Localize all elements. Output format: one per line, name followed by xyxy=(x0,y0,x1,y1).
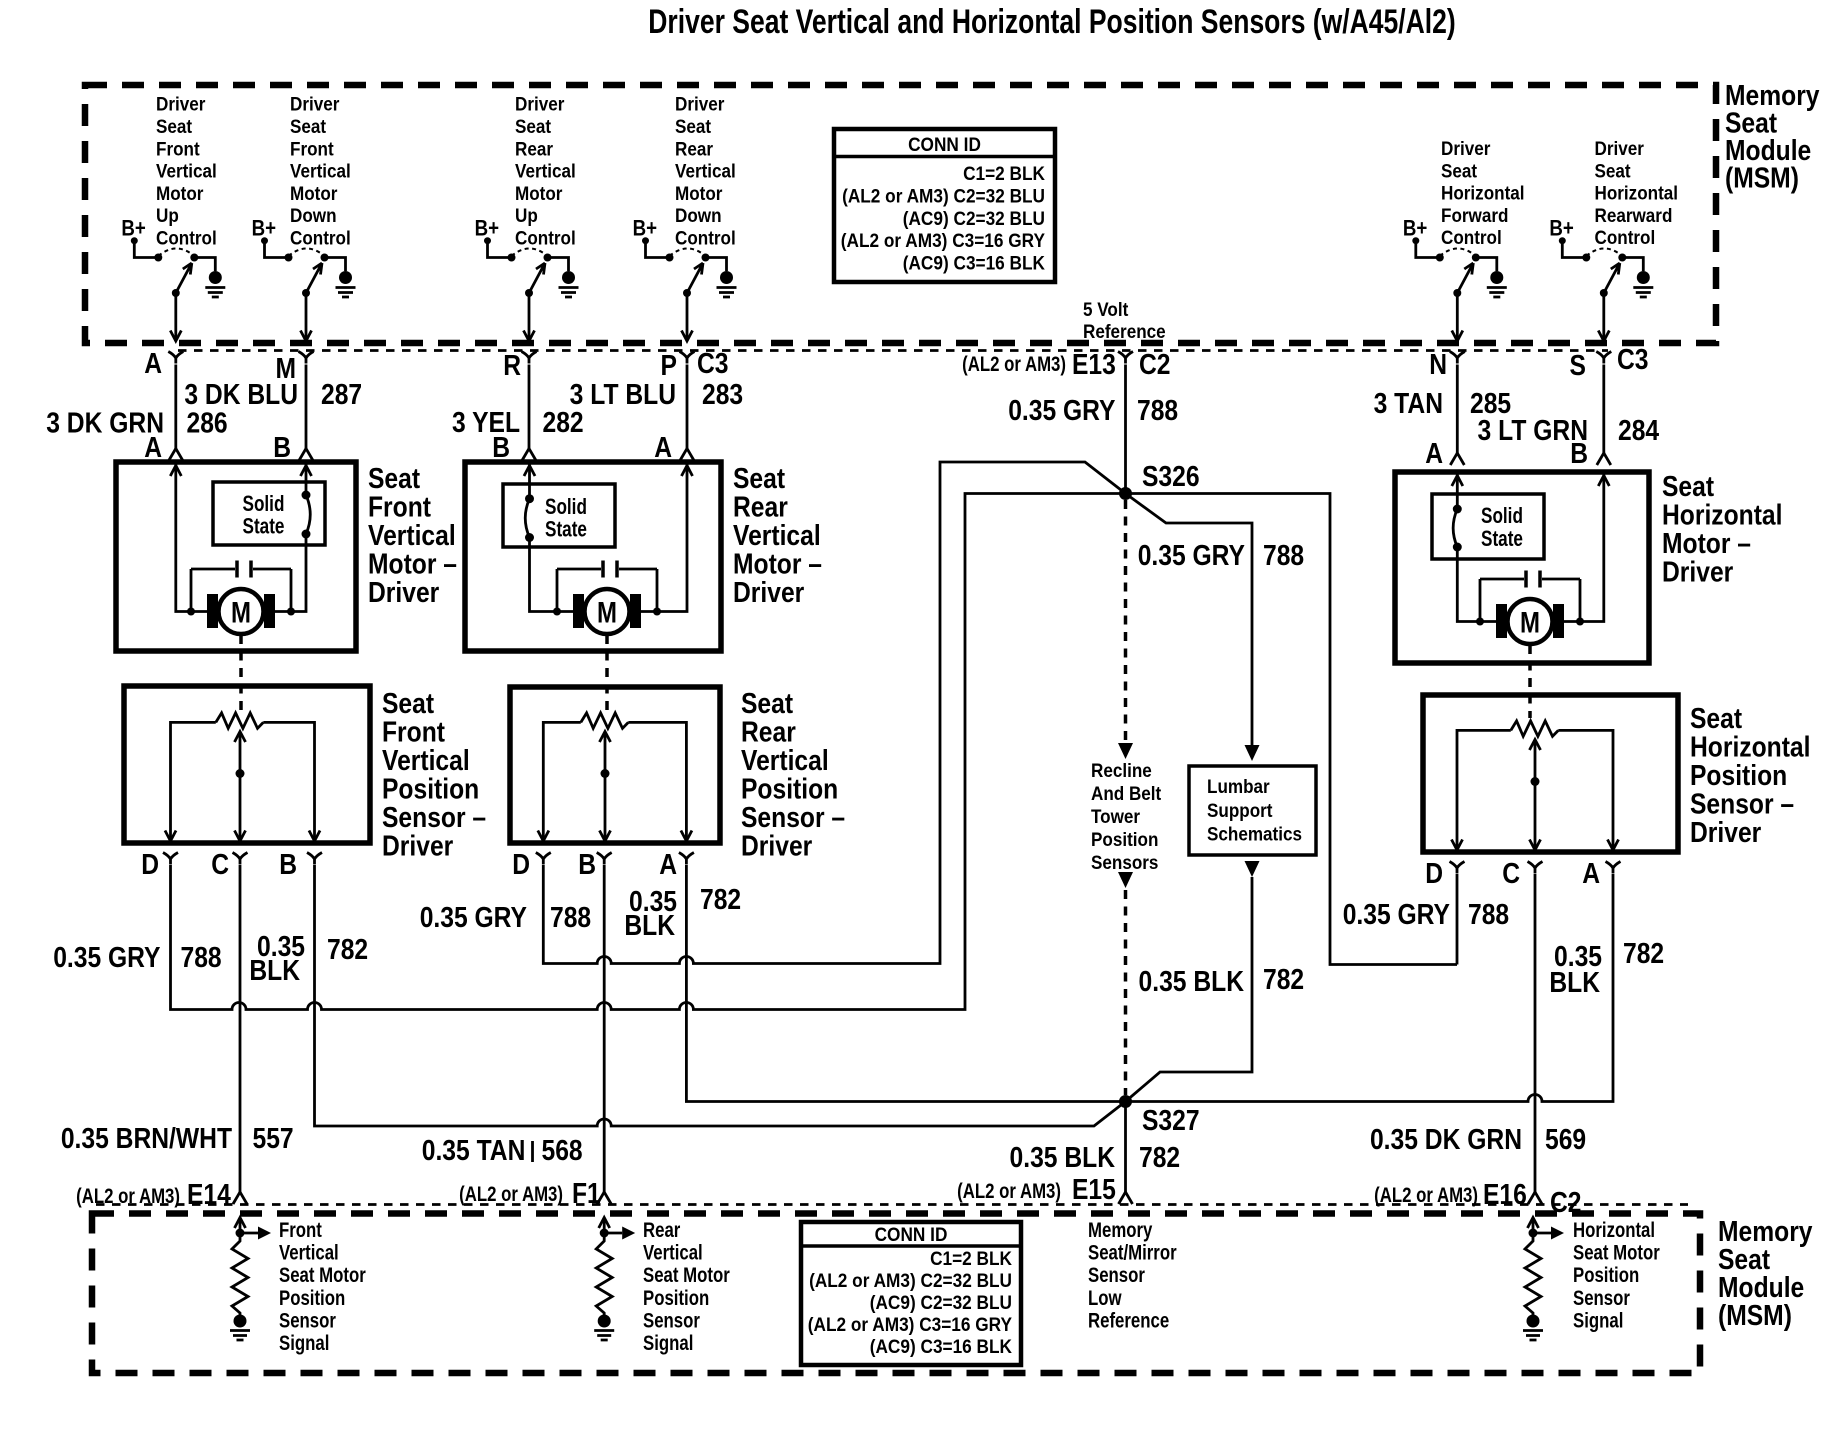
svg-text:Horizontal: Horizontal xyxy=(1441,183,1525,204)
svg-text:Vertical: Vertical xyxy=(382,744,470,776)
svg-text:E14: E14 xyxy=(187,1178,231,1210)
svg-text:Motor –: Motor – xyxy=(733,548,822,580)
svg-text:S327: S327 xyxy=(1142,1104,1200,1136)
svg-text:And Belt: And Belt xyxy=(1091,783,1161,804)
svg-text:Vertical: Vertical xyxy=(368,519,456,551)
svg-text:Lumbar: Lumbar xyxy=(1207,776,1270,797)
svg-text:Position: Position xyxy=(1573,1265,1639,1288)
svg-text:(AL2 or AM3): (AL2 or AM3) xyxy=(962,353,1066,376)
svg-text:Down: Down xyxy=(675,205,722,226)
svg-text:0.35 GRY: 0.35 GRY xyxy=(420,901,527,933)
svg-text:C: C xyxy=(1502,857,1520,889)
svg-text:Driver: Driver xyxy=(156,94,205,115)
svg-text:(AL2 or AM3) C3=16 GRY: (AL2 or AM3) C3=16 GRY xyxy=(808,1313,1013,1335)
svg-text:Sensor: Sensor xyxy=(279,1310,336,1333)
svg-text:Position: Position xyxy=(1091,829,1158,850)
svg-text:S: S xyxy=(1570,349,1586,381)
svg-text:Sensor: Sensor xyxy=(1088,1265,1145,1288)
svg-text:Signal: Signal xyxy=(279,1332,329,1355)
svg-text:(AC9) C3=16 BLK: (AC9) C3=16 BLK xyxy=(870,1335,1013,1357)
svg-text:Motor: Motor xyxy=(675,183,722,204)
svg-text:B: B xyxy=(279,848,297,880)
svg-text:Position: Position xyxy=(279,1287,345,1310)
svg-text:A: A xyxy=(144,431,162,463)
svg-text:Up: Up xyxy=(156,205,179,226)
svg-text:782: 782 xyxy=(1263,963,1304,995)
svg-text:Driver: Driver xyxy=(1441,138,1490,159)
svg-text:Seat: Seat xyxy=(156,116,192,137)
svg-text:Reference: Reference xyxy=(1083,321,1166,342)
svg-text:Seat: Seat xyxy=(515,116,551,137)
svg-text:E15: E15 xyxy=(1072,1173,1116,1205)
svg-text:State: State xyxy=(1481,527,1523,552)
svg-text:Support: Support xyxy=(1207,800,1272,821)
svg-text:Driver: Driver xyxy=(382,830,454,862)
svg-text:0.35 GRY: 0.35 GRY xyxy=(1138,539,1245,571)
svg-text:B+: B+ xyxy=(1403,217,1427,241)
svg-text:State: State xyxy=(243,515,285,540)
svg-text:Recline: Recline xyxy=(1091,760,1152,781)
svg-text:Sensor –: Sensor – xyxy=(741,801,845,833)
svg-text:Sensors: Sensors xyxy=(1091,852,1158,873)
svg-text:Rear: Rear xyxy=(675,138,713,159)
svg-text:Sensor: Sensor xyxy=(643,1310,700,1333)
svg-text:Motor –: Motor – xyxy=(368,548,457,580)
svg-text:0.35 BLK: 0.35 BLK xyxy=(1139,965,1245,997)
svg-text:Driver Seat Vertical and Horiz: Driver Seat Vertical and Horizontal Posi… xyxy=(648,3,1455,41)
svg-text:Vertical: Vertical xyxy=(515,161,576,182)
svg-text:Position: Position xyxy=(1690,759,1787,791)
svg-text:N: N xyxy=(1429,348,1447,380)
svg-text:Horizontal: Horizontal xyxy=(1662,499,1782,531)
svg-text:788: 788 xyxy=(1263,539,1304,571)
svg-text:Seat: Seat xyxy=(733,462,785,494)
svg-text:C3: C3 xyxy=(697,347,729,379)
svg-text:Position: Position xyxy=(741,773,838,805)
svg-text:Seat: Seat xyxy=(675,116,711,137)
svg-text:B: B xyxy=(1570,437,1588,469)
svg-text:568: 568 xyxy=(542,1134,583,1166)
svg-text:Seat: Seat xyxy=(1441,160,1477,181)
svg-text:782: 782 xyxy=(700,883,741,915)
svg-text:(AL2 or AM3) C3=16 GRY: (AL2 or AM3) C3=16 GRY xyxy=(841,229,1046,251)
svg-text:Horizontal: Horizontal xyxy=(1690,731,1810,763)
svg-text:569: 569 xyxy=(1545,1123,1586,1155)
svg-text:Seat: Seat xyxy=(1690,702,1742,734)
svg-text:782: 782 xyxy=(1623,937,1664,969)
svg-text:CONN ID: CONN ID xyxy=(908,133,981,155)
svg-text:557: 557 xyxy=(253,1122,294,1154)
svg-text:B+: B+ xyxy=(121,217,145,241)
svg-text:(AL2 or AM3) C2=32 BLU: (AL2 or AM3) C2=32 BLU xyxy=(809,1269,1012,1291)
svg-text:Front: Front xyxy=(156,138,200,159)
svg-text:Control: Control xyxy=(1595,227,1656,248)
svg-text:Horizontal: Horizontal xyxy=(1573,1219,1655,1242)
svg-text:Vertical: Vertical xyxy=(733,519,821,551)
svg-text:0.35 DK GRN: 0.35 DK GRN xyxy=(1370,1123,1522,1155)
svg-text:(AC9) C3=16 BLK: (AC9) C3=16 BLK xyxy=(903,252,1046,274)
svg-text:Rear: Rear xyxy=(643,1219,681,1242)
svg-text:0.35 TAN: 0.35 TAN xyxy=(422,1134,526,1166)
svg-text:0.35 GRY: 0.35 GRY xyxy=(1343,898,1450,930)
svg-text:D: D xyxy=(512,848,530,880)
svg-text:A: A xyxy=(1582,857,1600,889)
svg-text:Seat: Seat xyxy=(368,462,420,494)
svg-text:E16: E16 xyxy=(1483,1178,1527,1210)
svg-text:P: P xyxy=(661,349,677,381)
svg-text:5 Volt: 5 Volt xyxy=(1083,299,1128,320)
svg-text:Position: Position xyxy=(382,773,479,805)
svg-text:Schematics: Schematics xyxy=(1207,824,1302,845)
svg-text:788: 788 xyxy=(1468,898,1509,930)
svg-text:Vertical: Vertical xyxy=(675,161,736,182)
svg-text:Front: Front xyxy=(382,716,445,748)
svg-text:Rear: Rear xyxy=(741,716,796,748)
svg-text:Rearward: Rearward xyxy=(1595,205,1673,226)
svg-text:Driver: Driver xyxy=(1595,138,1644,159)
svg-text:Driver: Driver xyxy=(675,94,724,115)
svg-text:D: D xyxy=(141,848,159,880)
svg-text:Control: Control xyxy=(1441,227,1502,248)
svg-text:Motor: Motor xyxy=(515,183,562,204)
svg-text:Signal: Signal xyxy=(643,1332,693,1355)
svg-text:A: A xyxy=(654,431,672,463)
svg-text:Solid: Solid xyxy=(1481,504,1523,529)
svg-text:Low: Low xyxy=(1088,1287,1122,1310)
svg-text:Motor –: Motor – xyxy=(1662,527,1751,559)
svg-text:BLK: BLK xyxy=(624,909,675,941)
svg-text:0.35 GRY: 0.35 GRY xyxy=(1008,394,1115,426)
svg-text:287: 287 xyxy=(321,378,362,410)
svg-text:Driver: Driver xyxy=(1662,556,1734,588)
svg-text:782: 782 xyxy=(327,933,368,965)
svg-text:Sensor –: Sensor – xyxy=(1690,788,1794,820)
svg-text:E13: E13 xyxy=(1072,348,1116,380)
svg-text:Rear: Rear xyxy=(515,138,553,159)
svg-text:Driver: Driver xyxy=(368,576,440,608)
svg-text:Up: Up xyxy=(515,205,538,226)
svg-text:284: 284 xyxy=(1618,414,1659,446)
svg-text:Vertical: Vertical xyxy=(741,744,829,776)
svg-text:Seat: Seat xyxy=(1595,160,1631,181)
svg-text:Forward: Forward xyxy=(1441,205,1508,226)
svg-text:M: M xyxy=(1520,605,1540,639)
svg-text:(AL2 or AM3): (AL2 or AM3) xyxy=(76,1185,180,1208)
svg-text:B: B xyxy=(492,431,510,463)
svg-text:Down: Down xyxy=(290,205,337,226)
svg-text:(AC9) C2=32 BLU: (AC9) C2=32 BLU xyxy=(870,1291,1012,1313)
svg-text:M: M xyxy=(597,595,617,629)
svg-text:S326: S326 xyxy=(1142,460,1200,492)
svg-text:Memory: Memory xyxy=(1088,1219,1153,1242)
svg-text:Sensor –: Sensor – xyxy=(382,801,486,833)
svg-text:Seat: Seat xyxy=(382,687,434,719)
svg-text:(AL2 or AM3): (AL2 or AM3) xyxy=(957,1180,1061,1203)
svg-text:B+: B+ xyxy=(475,217,499,241)
svg-text:Front: Front xyxy=(368,491,431,523)
svg-text:0.35 BLK: 0.35 BLK xyxy=(1010,1141,1116,1173)
svg-text:Vertical: Vertical xyxy=(643,1242,703,1265)
svg-text:Seat/Mirror: Seat/Mirror xyxy=(1088,1242,1177,1265)
svg-text:Sensor: Sensor xyxy=(1573,1287,1630,1310)
svg-text:(MSM): (MSM) xyxy=(1725,162,1799,194)
svg-text:283: 283 xyxy=(702,378,743,410)
svg-text:Driver: Driver xyxy=(733,576,805,608)
svg-text:Vertical: Vertical xyxy=(156,161,217,182)
svg-text:Solid: Solid xyxy=(243,492,285,517)
svg-text:R: R xyxy=(503,349,521,381)
svg-text:782: 782 xyxy=(1139,1141,1180,1173)
svg-text:BLK: BLK xyxy=(249,954,300,986)
svg-text:BLK: BLK xyxy=(1549,966,1600,998)
svg-text:Reference: Reference xyxy=(1088,1310,1169,1333)
svg-text:Front: Front xyxy=(290,138,334,159)
svg-text:D: D xyxy=(1425,857,1443,889)
svg-text:Control: Control xyxy=(290,228,351,249)
svg-text:Vertical: Vertical xyxy=(279,1242,339,1265)
svg-text:(AL2 or AM3): (AL2 or AM3) xyxy=(459,1183,563,1206)
svg-text:0.35 BRN/WHT: 0.35 BRN/WHT xyxy=(61,1122,233,1154)
svg-text:C2: C2 xyxy=(1550,1186,1582,1218)
svg-text:F1: F1 xyxy=(572,1177,601,1209)
svg-text:Signal: Signal xyxy=(1573,1310,1623,1333)
svg-text:A: A xyxy=(659,848,677,880)
svg-text:286: 286 xyxy=(187,407,228,439)
svg-text:B+: B+ xyxy=(252,217,276,241)
svg-text:Seat Motor: Seat Motor xyxy=(1573,1242,1660,1265)
svg-text:(MSM): (MSM) xyxy=(1718,1299,1792,1331)
svg-text:Driver: Driver xyxy=(1690,816,1762,848)
svg-text:Driver: Driver xyxy=(741,830,813,862)
svg-text:Front: Front xyxy=(279,1219,322,1242)
svg-text:282: 282 xyxy=(543,406,584,438)
svg-text:C2: C2 xyxy=(1139,348,1171,380)
svg-text:Seat Motor: Seat Motor xyxy=(643,1265,730,1288)
svg-text:A: A xyxy=(1425,437,1443,469)
svg-text:788: 788 xyxy=(1137,394,1178,426)
svg-text:Seat: Seat xyxy=(290,116,326,137)
svg-text:C: C xyxy=(211,848,229,880)
svg-text:Seat: Seat xyxy=(1662,470,1714,502)
svg-text:CONN ID: CONN ID xyxy=(875,1223,948,1245)
svg-text:B+: B+ xyxy=(633,217,657,241)
svg-text:Motor: Motor xyxy=(290,183,337,204)
svg-text:Control: Control xyxy=(515,228,576,249)
svg-text:0.35 GRY: 0.35 GRY xyxy=(53,941,160,973)
svg-text:Control: Control xyxy=(675,228,736,249)
svg-text:B+: B+ xyxy=(1549,217,1573,241)
svg-text:Vertical: Vertical xyxy=(290,161,351,182)
svg-text:Seat Motor: Seat Motor xyxy=(279,1265,366,1288)
svg-text:Tower: Tower xyxy=(1091,806,1140,827)
svg-text:State: State xyxy=(545,518,587,543)
svg-text:788: 788 xyxy=(550,901,591,933)
svg-text:(AL2 or AM3) C2=32 BLU: (AL2 or AM3) C2=32 BLU xyxy=(842,184,1045,206)
svg-text:M: M xyxy=(231,595,251,629)
svg-text:Motor: Motor xyxy=(156,183,203,204)
svg-text:C1=2 BLK: C1=2 BLK xyxy=(963,162,1046,184)
svg-text:Rear: Rear xyxy=(733,491,788,523)
svg-text:3 TAN: 3 TAN xyxy=(1374,387,1443,419)
svg-text:Driver: Driver xyxy=(290,94,339,115)
svg-text:3 DK BLU: 3 DK BLU xyxy=(184,378,298,410)
svg-text:Position: Position xyxy=(643,1287,709,1310)
svg-text:Solid: Solid xyxy=(545,495,587,520)
svg-text:Control: Control xyxy=(156,228,217,249)
svg-text:Driver: Driver xyxy=(515,94,564,115)
svg-text:3 LT BLU: 3 LT BLU xyxy=(570,378,676,410)
svg-text:Horizontal: Horizontal xyxy=(1595,183,1679,204)
svg-text:(AL2 or AM3): (AL2 or AM3) xyxy=(1374,1184,1478,1207)
svg-text:(AC9) C2=32 BLU: (AC9) C2=32 BLU xyxy=(903,207,1045,229)
svg-text:C1=2 BLK: C1=2 BLK xyxy=(930,1247,1013,1269)
svg-text:C3: C3 xyxy=(1617,343,1649,375)
svg-text:B: B xyxy=(273,431,291,463)
svg-text:Seat: Seat xyxy=(741,687,793,719)
svg-text:B: B xyxy=(578,848,596,880)
svg-text:788: 788 xyxy=(181,941,222,973)
svg-text:A: A xyxy=(144,347,162,379)
